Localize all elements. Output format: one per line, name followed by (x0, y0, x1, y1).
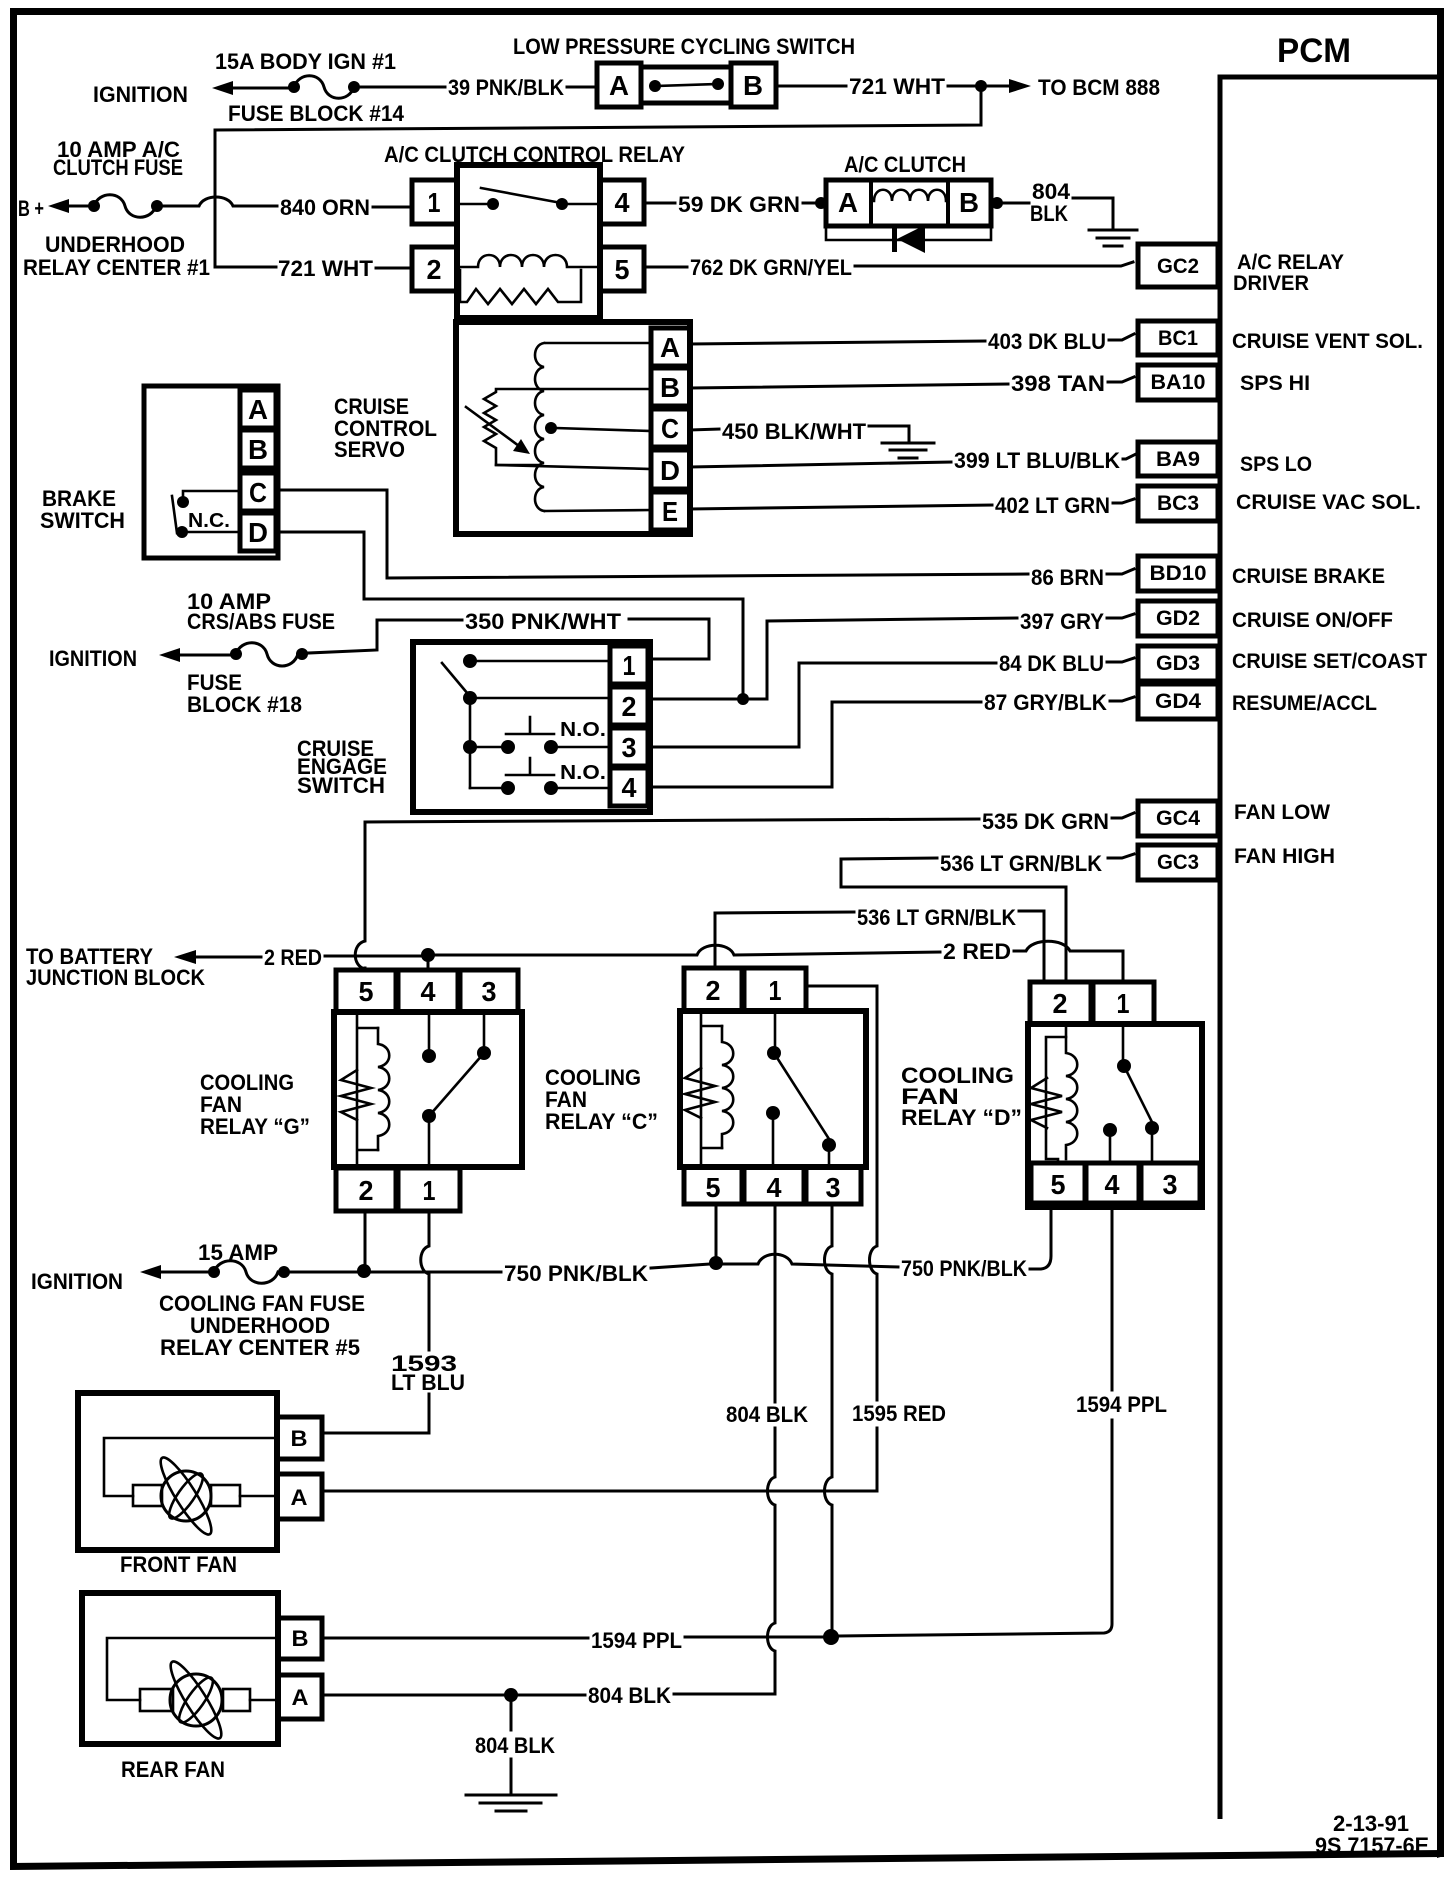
svg-text:GD3: GD3 (1156, 652, 1200, 675)
wire 762 DK GRN/YEL to GC2 (644, 255, 1133, 280)
wire 535 DK GRN (GC4 to relay G pin 5, hops 2 RED) (355, 809, 1134, 969)
svg-text:1594 PPL: 1594 PPL (591, 1628, 682, 1653)
svg-text:C: C (249, 477, 267, 508)
ground G3 (804 BLK) (466, 1701, 556, 1811)
servo terminal D (651, 450, 690, 489)
wire 402 LT GRN to BC3 (690, 493, 1134, 518)
relay D contact (1103, 1024, 1159, 1163)
svg-text:39 PNK/BLK: 39 PNK/BLK (448, 75, 564, 100)
relay D pin 1 (1093, 982, 1154, 1024)
low pressure cycling switch S1 (513, 34, 855, 107)
svg-text:B: B (660, 372, 680, 403)
PCM connector GD4 (1138, 684, 1218, 719)
servo terminal B (651, 368, 690, 406)
svg-text:SPS HI: SPS HI (1240, 372, 1310, 395)
svg-text:BA10: BA10 (1151, 371, 1206, 394)
wire 350 PNK/WHT to engage switch pin 1 (308, 609, 709, 659)
pin label FAN HIGH (1234, 845, 1335, 868)
svg-text:PCM: PCM (1277, 32, 1351, 70)
svg-text:2: 2 (427, 254, 442, 285)
svg-text:1: 1 (428, 187, 441, 218)
relay K1 contact (459, 188, 598, 210)
servo terminal E (651, 492, 690, 530)
svg-text:5: 5 (359, 976, 374, 1007)
diode D1 across A/C clutch (826, 225, 991, 253)
svg-text:RELAY CENTER #5: RELAY CENTER #5 (160, 1335, 360, 1360)
svg-text:C: C (661, 413, 679, 444)
svg-text:2 RED: 2 RED (264, 945, 322, 970)
svg-text:N.O.: N.O. (560, 762, 606, 784)
cooling fan relay G (200, 1012, 522, 1167)
svg-text:GC4: GC4 (1156, 807, 1200, 830)
svg-text:FRONT FAN: FRONT FAN (120, 1552, 237, 1577)
svg-text:LT BLU: LT BLU (391, 1370, 465, 1395)
svg-text:SERVO: SERVO (334, 437, 405, 462)
relay G contact (422, 1012, 491, 1168)
PCM connector GC2 (1138, 244, 1218, 287)
PCM connector BA9 (1138, 442, 1218, 476)
wire 536 LT GRN/BLK (GC3 to relay D pin 2) (841, 851, 1134, 980)
servo terminal C (651, 409, 690, 447)
wire 804 BLK (relay C pin 4 down, hops fan A line and 1594 PPL line) (726, 1204, 808, 1694)
brake switch terminal C (240, 473, 276, 511)
relay C coil (685, 1011, 733, 1167)
svg-text:86 BRN: 86 BRN (1031, 565, 1104, 590)
PCM connector BA10 (1138, 365, 1218, 400)
svg-text:450 BLK/WHT: 450 BLK/WHT (722, 419, 867, 444)
svg-text:4: 4 (421, 976, 436, 1007)
svg-text:E: E (662, 496, 678, 527)
wire 804 BLK to ground (1003, 179, 1113, 228)
PCM connector GD3 (1138, 646, 1218, 681)
pin label FAN LOW (1234, 801, 1330, 824)
svg-text:3: 3 (1163, 1169, 1178, 1200)
front fan terminal B (277, 1417, 322, 1459)
engage switch on/off contact (442, 654, 610, 788)
svg-text:GD2: GD2 (1156, 607, 1200, 630)
relay D pin 4 (1086, 1163, 1139, 1203)
brake switch terminal A (240, 390, 276, 428)
ground G2 (servo 450 BLK/WHT) (882, 443, 934, 458)
relay C contact (766, 1011, 836, 1167)
wire 1594 PPL (relay C pin 3 down to rear fan B junction, hops 750 and fan A line) (825, 1204, 833, 1631)
svg-text:FAN LOW: FAN LOW (1234, 801, 1330, 824)
svg-text:FUSE BLOCK #14: FUSE BLOCK #14 (228, 101, 405, 126)
A/C clutch control relay K1 (384, 142, 685, 318)
svg-text:2: 2 (622, 691, 637, 722)
pin label SPS HI (1240, 372, 1310, 395)
PCM connector BC1 (1138, 321, 1218, 355)
svg-text:59 DK GRN: 59 DK GRN (678, 192, 800, 217)
svg-text:4: 4 (615, 187, 630, 218)
svg-text:CRUISE ON/OFF: CRUISE ON/OFF (1232, 609, 1393, 632)
servo wiper tap junction (545, 422, 651, 434)
svg-text:721 WHT: 721 WHT (849, 74, 946, 99)
svg-text:399 LT BLU/BLK: 399 LT BLU/BLK (954, 448, 1120, 473)
svg-text:CRUISE VAC SOL.: CRUISE VAC SOL. (1236, 491, 1421, 514)
relay C pin 1 (744, 968, 806, 1011)
pin label RESUME/ACCL (1232, 692, 1377, 715)
rear fan terminal A (278, 1675, 322, 1719)
svg-text:RELAY “D”: RELAY “D” (901, 1105, 1022, 1130)
svg-text:804 BLK: 804 BLK (475, 1733, 555, 1758)
svg-text:A: A (291, 1485, 308, 1510)
wire 2 RED battery feed (26, 944, 422, 990)
svg-text:LOW PRESSURE CYCLING SWITCH: LOW PRESSURE CYCLING SWITCH (513, 34, 855, 59)
svg-text:B: B (292, 1626, 309, 1651)
svg-text:B: B (291, 1426, 308, 1451)
pin label CRUISE VENT SOL. (1232, 330, 1423, 353)
svg-text:15A BODY IGN #1: 15A BODY IGN #1 (215, 49, 396, 74)
svg-text:IGNITION: IGNITION (49, 646, 137, 671)
wire 2 RED (relay G to relay D pin 1, hops 536 vertical) (435, 939, 1123, 980)
relay K1 coil (459, 255, 598, 304)
svg-text:762 DK GRN/YEL: 762 DK GRN/YEL (690, 255, 852, 280)
cruise engage switch S3 (297, 642, 650, 812)
wire 450 BLK/WHT to ground (690, 419, 909, 444)
date code (1315, 1811, 1429, 1858)
relay K1 pin 5 (600, 247, 644, 291)
svg-text:GC2: GC2 (1157, 255, 1199, 278)
svg-text:5: 5 (1051, 1169, 1066, 1200)
svg-text:CRUISE BRAKE: CRUISE BRAKE (1232, 565, 1385, 588)
svg-text:2: 2 (359, 1175, 374, 1206)
relay K1 pin 1 (412, 180, 457, 224)
fuse F3 10 AMP CRS/ABS (49, 589, 335, 717)
relay C pin 4 (744, 1167, 804, 1204)
cooling fan relay C (545, 1011, 866, 1167)
svg-text:4: 4 (622, 772, 637, 803)
svg-text:350 PNK/WHT: 350 PNK/WHT (465, 609, 622, 634)
svg-text:RELAY “G”: RELAY “G” (200, 1114, 310, 1139)
svg-text:A: A (609, 70, 629, 101)
pin label CRUISE ON/OFF (1232, 609, 1393, 632)
svg-text:84 DK BLU: 84 DK BLU (999, 651, 1104, 676)
node: 2 RED junction above relay G pin 4 (421, 948, 435, 968)
svg-text:FAN HIGH: FAN HIGH (1234, 845, 1335, 868)
engage switch pin 4 (610, 768, 648, 806)
svg-text:804 BLK: 804 BLK (726, 1402, 808, 1427)
svg-text:RELAY CENTER #1: RELAY CENTER #1 (23, 255, 210, 280)
svg-text:750 PNK/BLK: 750 PNK/BLK (901, 1256, 1027, 1281)
relay G pin 4 (398, 970, 458, 1012)
svg-text:397 GRY: 397 GRY (1020, 609, 1104, 634)
wire 1594 PPL (rear fan B to junction and up to relay D pin 4) (322, 1205, 1167, 1653)
svg-text:402 LT GRN: 402 LT GRN (995, 493, 1110, 518)
relay D coil (1031, 1024, 1077, 1163)
front fan terminal A (277, 1474, 322, 1519)
wire 536 LT GRN/BLK (relay C pin 2 tie to relay D pin 2) (715, 905, 1044, 980)
cooling fan relay D (901, 1024, 1202, 1207)
svg-text:IGNITION: IGNITION (31, 1269, 123, 1294)
svg-text:BC1: BC1 (1158, 327, 1198, 350)
svg-text:1: 1 (1117, 988, 1130, 1019)
svg-text:BLK: BLK (1030, 201, 1068, 226)
svg-text:1: 1 (423, 1175, 436, 1206)
svg-text:2 RED: 2 RED (943, 939, 1011, 964)
fuse F4 15 AMP cooling fan (31, 1240, 365, 1360)
wire 840 ORN with hop over 721 WHT (163, 195, 412, 220)
brake switch N.C. contact (172, 491, 240, 538)
svg-text:SWITCH: SWITCH (297, 773, 385, 798)
pin label CRUISE VAC SOL. (1236, 491, 1421, 514)
pin label CRUISE BRAKE (1232, 565, 1385, 588)
wire 398 TAN to BA10 (690, 371, 1134, 396)
front fan internal motor symbol (104, 1438, 277, 1539)
relay G pin 3 (460, 970, 518, 1012)
svg-text:CRUISE SET/COAST: CRUISE SET/COAST (1232, 650, 1427, 673)
wire 721 WHT junction down to relay pin 2 (215, 86, 981, 281)
relay G pin 1 (398, 1168, 460, 1211)
svg-text:IGNITION: IGNITION (93, 82, 188, 107)
relay K1 pin 4 (600, 180, 644, 224)
svg-text:N.C.: N.C. (188, 510, 230, 532)
relay D pin 3 (1141, 1163, 1200, 1203)
svg-text:5: 5 (706, 1172, 721, 1203)
wire 750 PNK/BLK (to relay D pin 5) (901, 1205, 1051, 1281)
PCM connector GC3 (1138, 845, 1218, 880)
wire 86 BRN (brake C to BD10) (276, 490, 1134, 590)
engage switch pin 2 (610, 687, 648, 725)
svg-text:403 DK BLU: 403 DK BLU (988, 329, 1106, 354)
svg-text:1595 RED: 1595 RED (852, 1401, 946, 1426)
node: pin2 junction with brake D wire (648, 693, 767, 705)
svg-text:JUNCTION BLOCK: JUNCTION BLOCK (26, 965, 205, 990)
wire 750 PNK/BLK (ignition to relay G pin 2 and relay C pin 5) (290, 1204, 898, 1286)
svg-text:2: 2 (706, 975, 721, 1006)
svg-text:B: B (743, 70, 763, 101)
svg-text:CRUISE VENT SOL.: CRUISE VENT SOL. (1232, 330, 1423, 353)
svg-text:1594 PPL: 1594 PPL (1076, 1392, 1167, 1417)
svg-text:4: 4 (1105, 1169, 1120, 1200)
svg-text:BA9: BA9 (1156, 448, 1200, 471)
svg-text:REAR FAN: REAR FAN (121, 1757, 225, 1782)
svg-text:1: 1 (769, 975, 782, 1006)
ground G1 (A/C clutch) (1089, 230, 1137, 246)
svg-text:A/C CLUTCH: A/C CLUTCH (844, 152, 966, 177)
svg-text:DRIVER: DRIVER (1233, 272, 1309, 295)
wire 39 PNK/BLK (360, 75, 597, 100)
brake switch terminal D (240, 513, 276, 551)
wire 721 WHT to BCM (776, 74, 1160, 100)
pin label CRUISE SET/COAST (1232, 650, 1427, 673)
rear fan internal motor symbol (107, 1638, 278, 1743)
relay C pin 2 (684, 968, 742, 1011)
svg-text:398 TAN: 398 TAN (1011, 371, 1105, 396)
svg-text:535 DK GRN: 535 DK GRN (982, 809, 1109, 834)
wire 1593 LT BLU (relay G pin 1 to front fan B, hops 750) (322, 1211, 465, 1433)
wire 403 DK BLU to BC1 (690, 329, 1134, 354)
engage switch pin 3 (610, 728, 648, 766)
brake switch S2 (40, 386, 278, 558)
svg-text:D: D (660, 455, 680, 486)
svg-text:A/C RELAY: A/C RELAY (1237, 251, 1344, 274)
svg-text:2: 2 (1053, 988, 1068, 1019)
wire 397 GRY to GD2 (767, 609, 1134, 699)
svg-text:UNDERHOOD: UNDERHOOD (45, 232, 185, 257)
svg-text:B: B (959, 187, 979, 218)
servo wiper arrow (466, 407, 530, 454)
wire brake D down to engage switch pin 2 node (276, 532, 743, 695)
svg-text:RELAY “C”: RELAY “C” (545, 1109, 658, 1134)
wire 87 GRY/BLK to GD4 (648, 690, 1134, 787)
svg-text:RESUME/ACCL: RESUME/ACCL (1232, 692, 1377, 715)
svg-text:SPS LO: SPS LO (1240, 453, 1312, 476)
svg-text:BC3: BC3 (1157, 492, 1199, 515)
relay D pin 5 (1031, 1163, 1085, 1203)
svg-text:3: 3 (482, 976, 497, 1007)
brake switch terminal B (240, 430, 276, 468)
rear fan motor M4 (82, 1593, 278, 1782)
svg-text:721 WHT: 721 WHT (278, 256, 374, 281)
relay K1 pin 2 (412, 247, 457, 291)
svg-text:GD4: GD4 (1155, 690, 1201, 713)
svg-text:A: A (660, 332, 680, 363)
engage switch resume/accl N.O. button (470, 758, 610, 795)
PCM connector BC3 (1138, 486, 1218, 521)
svg-text:536 LT GRN/BLK: 536 LT GRN/BLK (940, 851, 1102, 876)
svg-text:5: 5 (615, 254, 630, 285)
fuse F2 10 AMP A/C CLUTCH FUSE (18, 137, 210, 280)
wire 804 BLK (rear fan A to ground and 804 BLK drop) (322, 1683, 775, 1708)
relay G coil (341, 1012, 389, 1168)
svg-text:B: B (248, 434, 268, 465)
engage switch set/coast N.O. button (463, 717, 610, 754)
svg-text:750 PNK/BLK: 750 PNK/BLK (504, 1261, 648, 1286)
wire 59 DK GRN (644, 192, 818, 217)
svg-text:840 ORN: 840 ORN (280, 195, 370, 220)
svg-text:GC3: GC3 (1157, 851, 1199, 874)
svg-text:N.O.: N.O. (560, 719, 606, 741)
relay D pin 2 (1030, 982, 1091, 1024)
svg-text:CRS/ABS FUSE: CRS/ABS FUSE (187, 609, 335, 634)
svg-text:TO BCM 888: TO BCM 888 (1038, 75, 1160, 100)
relay G pin 5 (336, 970, 396, 1012)
svg-text:804 BLK: 804 BLK (588, 1683, 671, 1708)
servo potentiometer winding (484, 343, 651, 511)
fuse F1 15A BODY IGN #1 (93, 49, 405, 126)
PCM connector GC4 (1138, 801, 1218, 836)
svg-text:CLUTCH FUSE: CLUTCH FUSE (53, 155, 183, 180)
cruise control servo M2 (334, 322, 690, 534)
relay C pin 5 (684, 1167, 742, 1204)
rear fan terminal B (278, 1618, 322, 1659)
svg-text:BLOCK #18: BLOCK #18 (187, 692, 302, 717)
pin label A/C RELAY DRIVER (1233, 251, 1344, 295)
svg-text:536 LT GRN/BLK: 536 LT GRN/BLK (857, 905, 1016, 930)
front fan motor M3 (78, 1393, 277, 1577)
svg-text:1: 1 (623, 650, 636, 681)
servo terminal A (651, 328, 690, 366)
pin label SPS LO (1240, 453, 1312, 476)
svg-text:B +: B + (18, 196, 44, 221)
relay C pin 3 (806, 1167, 861, 1204)
svg-text:A: A (838, 187, 858, 218)
relay G pin 2 (336, 1168, 396, 1211)
engage switch pin 1 (610, 646, 648, 684)
wire 1595 RED (relay C pin 1 to front fan A, hops 750) (322, 986, 946, 1491)
wire 84 DK BLU to GD3 (648, 651, 1134, 747)
svg-text:A: A (248, 394, 268, 425)
wire 399 LT BLU/BLK to BA9 (690, 448, 1136, 473)
svg-text:BD10: BD10 (1150, 562, 1207, 585)
svg-text:9S 7157-6E: 9S 7157-6E (1315, 1833, 1429, 1858)
svg-text:D: D (248, 517, 268, 548)
svg-text:4: 4 (767, 1172, 782, 1203)
svg-text:3: 3 (826, 1172, 841, 1203)
svg-text:A: A (292, 1685, 309, 1710)
PCM module outline (1220, 32, 1437, 1819)
svg-text:3: 3 (622, 732, 637, 763)
svg-text:SWITCH: SWITCH (40, 508, 125, 533)
PCM connector GD2 (1138, 601, 1218, 636)
PCM connector BD10 (1138, 556, 1218, 591)
A/C clutch coil M1 (815, 152, 1003, 226)
svg-text:87 GRY/BLK: 87 GRY/BLK (984, 690, 1107, 715)
